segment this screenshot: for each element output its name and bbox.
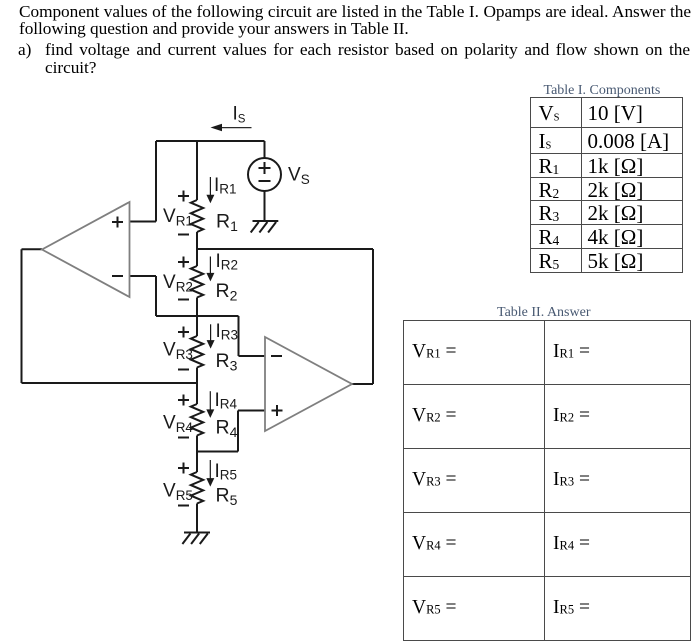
svg-text:VR1: VR1: [163, 206, 193, 229]
svg-text:VR3: VR3: [163, 340, 193, 363]
svg-text:VS: VS: [288, 165, 310, 188]
svg-text:VR4: VR4: [163, 413, 193, 436]
svg-text:IR4: IR4: [215, 390, 238, 412]
svg-text:IS: IS: [233, 104, 246, 126]
svg-text:IR5: IR5: [215, 461, 238, 483]
svg-text:IR3: IR3: [216, 321, 239, 343]
svg-text:VR2: VR2: [163, 272, 193, 295]
svg-text:VR5: VR5: [163, 481, 193, 504]
svg-text:IR1: IR1: [214, 175, 237, 197]
svg-text:R2: R2: [216, 280, 238, 304]
svg-text:R1: R1: [216, 211, 238, 235]
svg-text:R5: R5: [216, 485, 238, 509]
svg-text:R4: R4: [216, 417, 238, 441]
svg-text:IR2: IR2: [216, 251, 239, 273]
svg-text:R3: R3: [216, 350, 238, 374]
